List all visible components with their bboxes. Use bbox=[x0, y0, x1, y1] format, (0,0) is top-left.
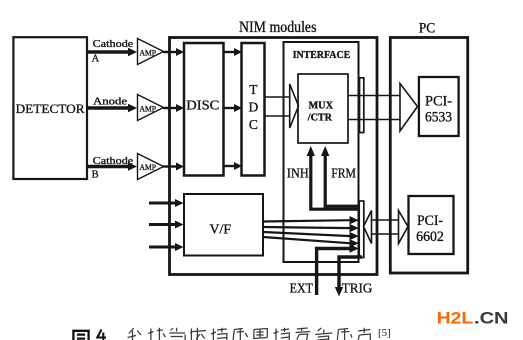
svg-text:INTERFACE: INTERFACE bbox=[293, 49, 351, 61]
svg-text:B: B bbox=[92, 170, 99, 181]
MUX/CTR box bbox=[298, 74, 348, 143]
amplifier AMP3 bbox=[138, 154, 164, 180]
svg-text:6533: 6533 bbox=[425, 110, 452, 126]
TRIG wire bbox=[335, 257, 373, 297]
svg-text:INH: INH bbox=[287, 165, 309, 180]
svg-text:PCI-: PCI- bbox=[417, 213, 443, 229]
INTERFACE box bbox=[284, 42, 359, 262]
DISC box bbox=[184, 43, 224, 176]
wire AMP2 to DISC bbox=[163, 104, 184, 112]
wire MUX to PCI-6533 bbox=[348, 84, 418, 132]
watermark H2L.CN bbox=[437, 309, 509, 327]
svg-text:AMP: AMP bbox=[140, 163, 157, 172]
wire DISC to TDC middle bbox=[224, 104, 242, 112]
svg-text:A: A bbox=[92, 54, 100, 65]
svg-text:FRM: FRM bbox=[331, 165, 356, 180]
svg-text:EXT: EXT bbox=[290, 280, 314, 295]
svg-text:.CN: .CN bbox=[474, 309, 509, 327]
svg-text:H2L: H2L bbox=[437, 309, 474, 327]
V/F output bus wire 2 bbox=[263, 224, 359, 232]
svg-text:6602: 6602 bbox=[416, 229, 444, 245]
svg-text:/CTR: /CTR bbox=[307, 113, 333, 124]
wire AMP1 to DISC bbox=[163, 48, 184, 56]
svg-text:AMP: AMP bbox=[140, 104, 157, 113]
svg-text:AMP: AMP bbox=[140, 48, 157, 57]
connector bracket top bbox=[360, 78, 364, 133]
svg-text:[5]: [5] bbox=[378, 327, 391, 339]
PCI-6602 box bbox=[409, 196, 454, 254]
PC outer box bbox=[390, 20, 467, 273]
detector box bbox=[13, 37, 87, 179]
V/F output bus wire 4 bbox=[263, 237, 359, 248]
svg-text:Cathode: Cathode bbox=[93, 156, 134, 167]
V/F input wire 3 bbox=[149, 243, 184, 251]
V/F input wire 2 bbox=[149, 221, 184, 229]
svg-text:PCI-: PCI- bbox=[425, 94, 452, 110]
PCI-6533 box bbox=[419, 77, 459, 136]
wire DISC to TDC bottom bbox=[224, 162, 242, 170]
svg-text:C: C bbox=[249, 117, 258, 132]
V/F input wire 1 bbox=[149, 199, 184, 207]
TDC box bbox=[242, 43, 265, 176]
svg-text:TRIG: TRIG bbox=[342, 280, 373, 295]
svg-text:V/F: V/F bbox=[210, 223, 232, 238]
caption reference superscript bbox=[378, 327, 391, 339]
INH wire bbox=[287, 146, 360, 209]
svg-text:DETECTOR: DETECTOR bbox=[16, 101, 85, 116]
amplifier AMP2 bbox=[138, 95, 164, 121]
connector bracket bottom bbox=[359, 201, 364, 258]
svg-text:DISC: DISC bbox=[186, 97, 219, 112]
svg-text:NIM modules: NIM modules bbox=[239, 19, 317, 36]
amplifier AMP1 bbox=[138, 39, 164, 65]
svg-text:MUX: MUX bbox=[309, 101, 334, 112]
wire cathode A bbox=[86, 39, 137, 65]
svg-text:PC: PC bbox=[419, 20, 436, 36]
svg-text:D: D bbox=[249, 100, 259, 115]
wire TDC to MUX bus bbox=[265, 84, 299, 128]
V/F output bus wire 3 bbox=[263, 232, 359, 240]
wire DISC to TDC top bbox=[224, 48, 242, 56]
NIM modules outer box bbox=[170, 19, 378, 275]
V/F box bbox=[184, 194, 263, 256]
FRM wire bbox=[321, 146, 360, 206]
V/F output bus wire 1 bbox=[263, 216, 359, 224]
wire cathode B bbox=[86, 156, 137, 181]
svg-text:T: T bbox=[249, 82, 258, 97]
caption text (cut off chinese) bbox=[128, 328, 371, 340]
svg-text:Cathode: Cathode bbox=[93, 39, 134, 50]
wire anode bbox=[86, 96, 137, 112]
caption figure number (bold, cut off) bbox=[73, 330, 106, 340]
wire AMP3 to DISC bbox=[163, 163, 184, 171]
EXT wire bbox=[290, 244, 359, 295]
svg-text:Anode: Anode bbox=[93, 96, 127, 107]
double arrow bracket to PCI-6602 bbox=[364, 211, 409, 244]
